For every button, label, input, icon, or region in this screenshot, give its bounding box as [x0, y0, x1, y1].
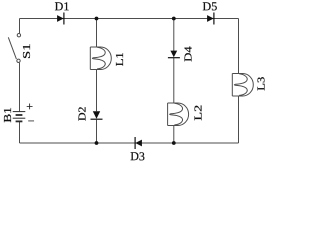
wire right-top (corner to L3): [238, 19, 240, 74]
battery B1: [3, 99, 35, 128]
svg-text:D4: D4: [184, 45, 195, 61]
svg-text:D2: D2: [77, 107, 88, 122]
svg-text:−: −: [28, 114, 35, 128]
diode D5: [203, 0, 218, 25]
lamp L3: [232, 74, 267, 97]
wire branch2-top (node to D4): [173, 19, 175, 52]
svg-text:L1: L1: [115, 52, 126, 66]
svg-text:B1: B1: [3, 107, 14, 123]
wire right-bottom (L3 to corner): [238, 96, 240, 143]
svg-text:L3: L3: [256, 77, 267, 91]
wire branch1-bottom (D2 to node): [96, 120, 98, 143]
wire bottom: [20, 142, 239, 144]
wire left-mid (switch to battery): [19, 63, 21, 112]
diode D3: [130, 137, 145, 163]
diode D1: [55, 0, 70, 25]
diode D4: [168, 45, 195, 61]
switch S1: [8, 34, 33, 63]
wire left-bottom (battery to corner): [19, 122, 21, 144]
wire left-top (corner to switch): [19, 19, 21, 34]
node bottom-left junction: [95, 141, 99, 145]
svg-text:+: +: [26, 99, 33, 113]
lamp L2: [168, 103, 205, 126]
svg-text:D1: D1: [55, 0, 70, 13]
lamp L1: [90, 47, 126, 70]
node top-left junction: [95, 17, 99, 21]
svg-text:S1: S1: [22, 43, 33, 59]
node top-right junction: [172, 17, 176, 21]
svg-text:D3: D3: [130, 149, 145, 163]
wire branch2-bottom (L2 to node): [173, 126, 175, 144]
wire top: [20, 18, 239, 20]
node bottom-right junction: [172, 141, 176, 145]
wire branch1-mid (L1 to D2): [96, 70, 98, 112]
svg-text:D5: D5: [203, 0, 218, 13]
wire branch2-mid (D4 to L2): [173, 57, 175, 103]
svg-text:L2: L2: [194, 105, 205, 121]
wire branch1-top (node to L1): [96, 19, 98, 48]
diode D2: [77, 107, 102, 122]
